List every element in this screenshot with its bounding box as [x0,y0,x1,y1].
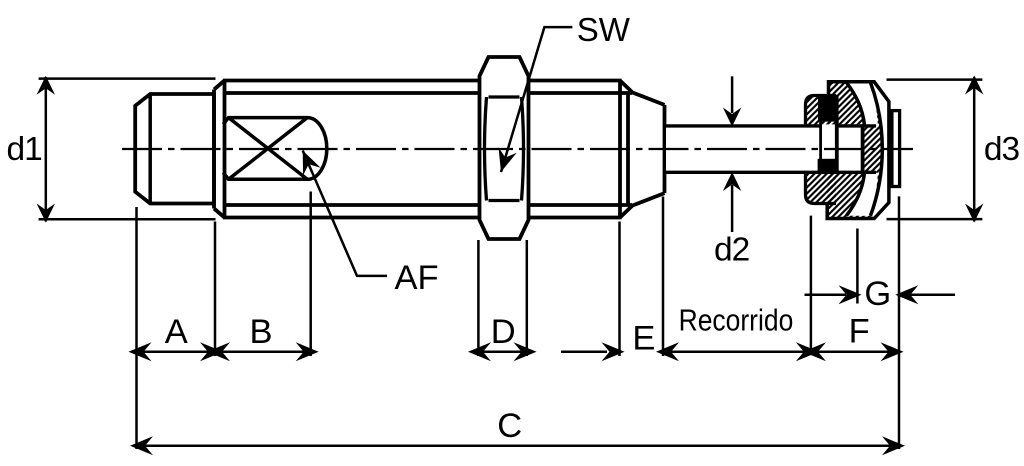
arrow C-left [130,436,153,455]
cone taper bottom [620,193,665,217]
arrow F-right [881,342,904,361]
dim d1 [45,77,48,222]
cone taper top [620,81,665,105]
svg-text:A: A [165,313,188,351]
dimension extension lines [39,79,983,449]
svg-text:G: G [864,275,891,313]
centerline [122,148,913,150]
piston rod [665,124,877,173]
hex nut SW [480,57,529,239]
cone shoulder line [626,93,630,206]
dim d3 [973,77,976,222]
body top outer line right of nut [529,79,622,83]
thread root line top left [223,91,480,95]
rod top line [665,124,821,127]
arrow B-right [296,342,319,361]
dim Recorrido [663,351,811,354]
dim E lead [561,351,607,354]
white lens above rod [847,82,878,125]
inner arc upper [847,83,865,126]
svg-text:Recorrido: Recorrido [679,303,794,338]
arrow d3-top [965,76,983,95]
ext A/B [214,222,217,357]
bore cross diagonal 1 [229,118,308,180]
d3 extension top [887,78,983,81]
dim C [134,445,901,448]
d1 extension top [39,77,216,80]
svg-text:E: E [632,320,655,358]
rod white fill [666,124,861,173]
left end cap chamfer line [148,94,152,204]
arrow D-right [514,342,537,361]
svg-text:D: D [491,313,516,351]
arrow Rec-left [656,342,679,361]
rod end face [861,124,865,174]
dim A [137,351,216,354]
cap outline [827,82,889,219]
svg-text:B: B [249,313,272,351]
bore channel line right [835,121,839,174]
arrow Rec-right [796,342,819,361]
svg-text:AF: AF [395,259,439,297]
dim B [215,351,311,354]
dim D [472,351,533,354]
right plate [892,111,900,187]
arrow d2-top [723,108,741,127]
nut facet curve right [522,97,524,201]
seal bottom (black) [818,159,836,174]
svg-text:d2: d2 [714,232,749,269]
ext F/C-right [898,196,901,449]
arrow C-right [882,436,905,455]
inner arc lower [847,173,865,216]
body chamfer top-left [214,81,225,90]
bore channel line left [819,121,822,174]
flange outline [806,96,837,204]
body chamfer bottom-left [214,209,225,218]
dim d2 top [731,76,734,113]
leader AF [303,151,387,276]
svg-text:d3: d3 [984,131,1020,168]
svg-text:F: F [849,312,870,350]
dim F [811,351,899,354]
arrow E-left-out [602,342,625,361]
arrow B-left [207,342,230,361]
bore cross diagonal 2 [229,118,308,180]
rod top line right segment [837,124,876,127]
main threaded body [214,81,665,218]
arrow F-left [803,342,826,361]
d1 extension bottom [39,218,216,221]
arrow A-right [200,342,223,361]
bore outline with bullet end [223,118,326,180]
thread root line top right [529,91,633,95]
dim G right lead [908,293,955,296]
dim G left lead [805,293,847,296]
thread root line bottom right [529,203,633,207]
arrowheads [37,76,984,456]
body right face [618,81,622,218]
body top outer line left of nut [223,79,480,83]
svg-text:d1: d1 [7,131,42,168]
left end cap cylinder [135,94,214,204]
d3 extension bottom [887,218,983,221]
body left shoulder line [223,81,227,218]
body bottom outer line right of nut [529,216,622,220]
ext E-left [618,222,621,357]
ext D-left [477,240,480,356]
arrow d1-bot [37,204,55,223]
svg-text:SW: SW [577,11,631,48]
flange hatched section [806,96,837,204]
cap hatched section [827,82,889,219]
rod bottom line [665,171,877,174]
nut chamfer line bottom [489,199,520,202]
seal top (black) [818,95,839,122]
arrow d2-bot [723,172,741,191]
svg-text:C: C [497,407,522,445]
body bottom outer line left of nut [223,216,480,220]
white pocket right of outer arc [870,82,888,216]
dimension lines [46,76,974,446]
ext Recorrido-right [810,216,813,355]
ext B-right [309,192,312,357]
arrow D-left [468,342,491,361]
head cap (hatched) [827,82,889,219]
internal bore with cross (AF feature) [223,118,326,180]
ext D-right [526,240,529,356]
nut chamfer line top [489,95,520,98]
ext E-right [662,197,665,357]
left end cap outline [135,94,214,204]
dim d2 bottom [731,185,734,232]
arrow d3-bot [965,204,983,223]
ext G-left [856,229,859,304]
arrow G-left-out [839,285,862,304]
outer arc [870,82,882,216]
head flange (hatched) [806,96,837,204]
hex nut outline [480,57,529,239]
body left face [212,90,216,209]
leader SW [501,27,572,172]
arrow A-left [129,342,152,361]
thread root line bottom left [223,203,480,207]
nut facet curve left [485,97,487,201]
arrow G-right-out [895,285,918,304]
ext A-left [135,207,138,449]
arrow d1-top [37,76,55,95]
cone right face [663,105,667,193]
white lens below rod [847,173,878,216]
